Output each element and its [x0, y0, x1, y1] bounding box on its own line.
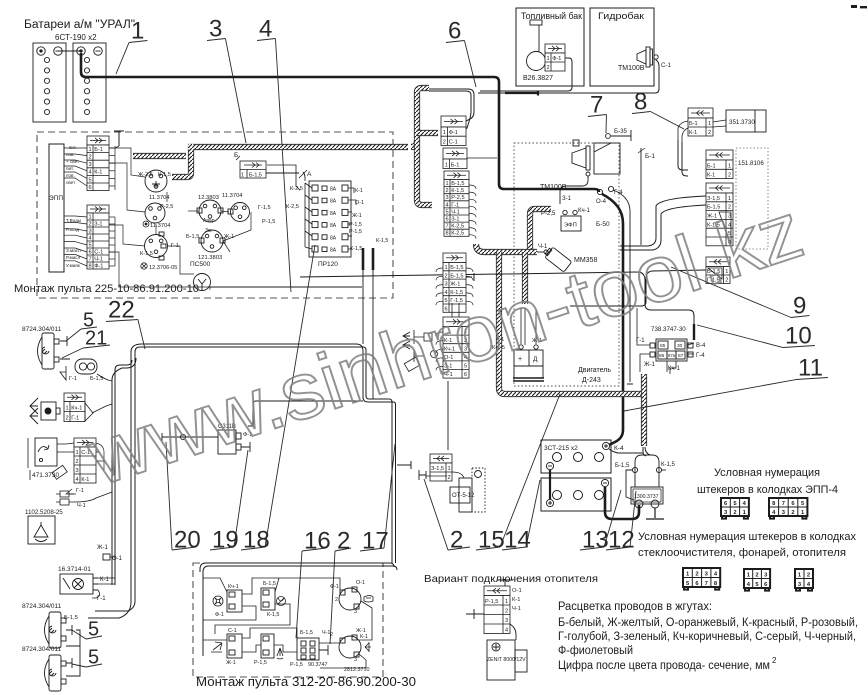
svg-text:К-1: К-1 [512, 597, 521, 603]
fog lamp 8724.304/011 #2 [45, 612, 67, 648]
svg-text:2: 2 [546, 65, 549, 71]
turn indicator arrows left-mid [403, 332, 410, 349]
svg-text:Б-1: Б-1 [689, 121, 698, 127]
svg-text:Р-1,5: Р-1,5 [485, 599, 498, 605]
callout 17 [360, 444, 395, 555]
label switch S3 [186, 228, 234, 261]
connector T4 6pin [443, 253, 466, 312]
relay K3 11.3704 [228, 203, 250, 222]
label horn wires [69, 376, 103, 382]
label console 312 title [196, 675, 416, 689]
svg-text:3СТ-215 х2: 3СТ-215 х2 [544, 445, 578, 452]
callout 14 [502, 480, 540, 554]
svg-text:Г-4: Г-4 [696, 353, 705, 359]
fuse C311B [218, 430, 241, 454]
label switch washer [254, 660, 267, 666]
svg-text:Р-2,5: Р-2,5 [451, 195, 464, 201]
oil pressure sensor MM358 [543, 246, 571, 272]
svg-text:2: 2 [88, 221, 91, 227]
svg-text:штекеров в колодках ЭПП-4: штекеров в колодках ЭПП-4 [697, 484, 838, 496]
callout 20 [166, 442, 201, 554]
wire sleeve V-4 [693, 324, 695, 340]
rotary switch 2812.3710 [339, 635, 361, 658]
wire washer to pair [74, 492, 112, 502]
pair bus 312 [200, 563, 397, 656]
svg-text:2: 2 [443, 139, 446, 145]
svg-text:З-1: З-1 [94, 221, 102, 227]
svg-text:8724.304/011: 8724.304/011 [22, 603, 62, 610]
wire to relay 738 [640, 272, 694, 338]
svg-text:Д-243: Д-243 [582, 377, 601, 384]
callout 5 [72, 647, 102, 669]
label console 225 title [14, 283, 199, 295]
wire EPP to table B bundle [64, 216, 87, 266]
svg-text:Б-белый, Ж-желтый, О-оранжевый: Б-белый, Ж-желтый, О-оранжевый, К-красны… [558, 617, 858, 629]
svg-text:ПС500: ПС500 [190, 261, 211, 268]
wire hydro sensor to connector T1 [478, 59, 659, 93]
wiper motor 471.3730 [35, 438, 57, 466]
wire T9 left [620, 196, 706, 250]
svg-text:2: 2 [445, 188, 448, 194]
wire cab lamp leads [92, 578, 115, 598]
wire heater link [497, 580, 516, 640]
callout 5 [66, 310, 97, 341]
svg-text:Условная нумерация штекеров в: Условная нумерация штекеров в колодках [638, 531, 856, 543]
svg-text:8: 8 [445, 231, 448, 237]
harness console top [133, 144, 408, 177]
wire branch heater [397, 461, 411, 469]
fuel filter EFP [561, 210, 581, 231]
svg-text:8724.304/011: 8724.304/011 [22, 326, 62, 333]
wire 312 internal [203, 578, 372, 668]
wire T5 side loops [436, 332, 443, 370]
switch S2 12.3803 [197, 200, 223, 222]
svg-text:Г-голубой, З-зеленый, Кч-корич: Г-голубой, З-зеленый, Кч-коричневый, С-с… [558, 631, 856, 643]
label batteries title [24, 19, 135, 42]
svg-text:Б-1,5: Б-1,5 [615, 463, 630, 469]
battery GB4 3ST-215 [541, 478, 611, 511]
cable GB4 to starter [605, 487, 639, 519]
switch fan (Kch-1) [227, 590, 242, 612]
svg-text:1102.5208-25: 1102.5208-25 [25, 509, 63, 516]
svg-text:1: 1 [445, 181, 448, 187]
svg-text:Б-1: Б-1 [451, 162, 460, 168]
engine box D-243 (dotted) [514, 143, 619, 386]
svg-text:4: 4 [445, 202, 448, 208]
battery GB3 3ST-215 [541, 440, 611, 473]
pilot lamp symbol [143, 221, 149, 227]
icon plug 8pin [683, 568, 720, 590]
svg-text:7: 7 [705, 581, 708, 587]
svg-text:Б-1,5: Б-1,5 [450, 273, 463, 279]
label rotary 2 [330, 628, 369, 673]
label O-4 / G-4 [596, 190, 623, 228]
svg-text:ОТ-5-12: ОТ-5-12 [452, 493, 475, 499]
harness engine V2 + bottom [499, 252, 647, 394]
svg-text:Условная нумерация: Условная нумерация [714, 467, 820, 479]
svg-text:К-1: К-1 [707, 173, 715, 179]
cab lamp 16.3714-01 [60, 574, 98, 594]
probe fog lamp [60, 336, 70, 359]
label switch fan [215, 584, 239, 618]
cable GB3-GB4 link [549, 470, 551, 499]
callout 3 [207, 16, 246, 143]
probe 90.3747 [319, 645, 328, 655]
label 3ST-215 [544, 445, 578, 452]
svg-text:7: 7 [590, 92, 603, 119]
svg-text:7: 7 [445, 224, 448, 230]
svg-text:пов.: пов. [66, 152, 75, 157]
switch washer [261, 634, 274, 658]
svg-text:Вариант подключения отопителя: Вариант подключения отопителя [424, 573, 598, 585]
callout 16 [296, 528, 331, 638]
svg-text:З-1,5: З-1,5 [707, 196, 720, 202]
svg-text:Ж-1: Ж-1 [226, 660, 236, 666]
svg-text:2: 2 [791, 510, 794, 516]
svg-text:11.3704: 11.3704 [222, 193, 243, 199]
label relay 738 pins [659, 343, 684, 359]
icon wiper [211, 642, 222, 652]
svg-text:Г-1: Г-1 [69, 376, 77, 382]
harness right of engine [641, 374, 647, 446]
wire T8 leads left [570, 270, 706, 306]
svg-text:Ж-1: Ж-1 [450, 282, 460, 288]
label relay K3 [222, 193, 275, 225]
flasher unit 351.3730 [726, 110, 766, 132]
svg-text:Б-1,5: Б-1,5 [450, 265, 463, 271]
wire Ch-1 to MM358 [537, 251, 544, 253]
harness engine vertical V1 [530, 209, 551, 250]
fuel tank box [516, 8, 584, 86]
wire T3 right stubs [469, 185, 476, 239]
svg-text:1: 1 [728, 196, 731, 202]
svg-text:К-1: К-1 [81, 477, 89, 483]
svg-text:Ф-фиолетовый: Ф-фиолетовый [558, 645, 633, 657]
callout 12 [606, 491, 636, 554]
svg-text:5: 5 [88, 242, 91, 248]
connector 90.3747 [297, 638, 319, 660]
svg-text:8: 8 [88, 263, 91, 269]
terminal GB4 minus [601, 479, 608, 486]
svg-text:351.3730: 351.3730 [729, 119, 755, 126]
wire console bus links [109, 148, 251, 290]
svg-text:Б-1,5: Б-1,5 [249, 173, 262, 179]
label Zh-1 left pair [97, 545, 109, 551]
svg-text:свет: свет [66, 180, 76, 185]
terminal GB3 plus [602, 442, 609, 449]
svg-text:1: 1 [546, 56, 549, 62]
console box 225 (dashed) [37, 132, 393, 298]
svg-text:1: 1 [444, 265, 447, 271]
label 8724.304/011 mid [22, 603, 62, 610]
svg-text:- пит.: - пит. [66, 145, 77, 150]
svg-text:738.3747-30: 738.3747-30 [651, 326, 686, 333]
svg-text:Ж-1: Ж-1 [97, 545, 109, 551]
svg-text:1: 1 [728, 163, 731, 169]
connector washer 2pin [56, 491, 74, 505]
icon EPP plug A [721, 498, 749, 519]
svg-text:Г-1: Г-1 [451, 202, 459, 208]
svg-text:Ф-1: Ф-1 [552, 56, 561, 62]
label PS500 [190, 261, 211, 268]
svg-text:9: 9 [793, 293, 806, 320]
svg-text:2: 2 [807, 573, 810, 579]
svg-text:стеклоочистителя, фонарей, ото: стеклоочистителя, фонарей, отопителя [638, 547, 846, 559]
svg-text:6: 6 [88, 185, 91, 191]
label B-1 [638, 148, 655, 160]
wire generator leads [521, 308, 536, 345]
label MM358 [538, 244, 597, 264]
svg-text:В26.3827: В26.3827 [523, 75, 553, 82]
svg-text:Цифра после цвета провода- сеч: Цифра после цвета провода- сечение, мм [558, 660, 770, 672]
fuse block PR120 [309, 181, 351, 257]
bracket symbols left-mid [414, 330, 438, 362]
svg-text:Б-1: Б-1 [707, 163, 716, 169]
svg-text:К-1,5: К-1,5 [350, 246, 362, 252]
wire TM100V down [560, 176, 588, 204]
svg-text:4: 4 [88, 170, 91, 176]
svg-text:К-1: К-1 [360, 634, 368, 640]
connector side repeater [64, 393, 85, 422]
label fuel tank [521, 11, 582, 21]
wire EPP to table A bundle [64, 148, 87, 186]
svg-text:Р-1,5: Р-1,5 [262, 219, 275, 225]
label relay K1 [138, 172, 171, 201]
horn [75, 359, 97, 374]
svg-text:11: 11 [798, 355, 823, 382]
probe symbol near Z table [419, 470, 426, 480]
wire K-1.5 starter [661, 469, 666, 471]
switch S3 121.3803 (start) [199, 230, 225, 252]
label heater variant [424, 573, 598, 585]
svg-text:6: 6 [445, 217, 448, 223]
svg-text:2: 2 [65, 415, 68, 421]
temperature sensor TM100V (hydro) [637, 47, 658, 67]
label 8724.304/011 bottom [22, 646, 62, 653]
heater ZENIT 8000/12V [487, 640, 527, 680]
svg-text:1: 1 [241, 173, 244, 179]
speck top right [851, 5, 867, 8]
svg-text:Монтаж пульта 312-20-86.90.200: Монтаж пульта 312-20-86.90.200-30 [196, 675, 416, 689]
label C311B [218, 424, 252, 438]
svg-text:1: 1 [445, 162, 448, 168]
terminal B-35 [606, 130, 631, 141]
svg-text:2: 2 [733, 510, 736, 516]
marker light connector O-1 [103, 554, 110, 560]
svg-text:1300.3737: 1300.3737 [634, 494, 659, 500]
switch S1 12.3803 (ignition) [145, 232, 168, 260]
label O-1 [112, 556, 123, 562]
svg-text:2: 2 [88, 155, 91, 161]
label K-2.5 lower [286, 204, 299, 210]
svg-text:1: 1 [88, 214, 91, 220]
label EFP [541, 208, 591, 229]
label B26.3827 [523, 75, 553, 82]
svg-text:К-1: К-1 [689, 130, 697, 136]
svg-text:6СТ-190 х2: 6СТ-190 х2 [55, 33, 97, 42]
label switch wiper [226, 628, 237, 666]
svg-text:С-1: С-1 [449, 139, 458, 145]
wire battery link [58, 50, 81, 52]
wire pair fuel to T1 [429, 89, 474, 129]
wire node B to A [266, 172, 305, 178]
callout 10 [697, 323, 815, 350]
svg-text:Б-1,5: Б-1,5 [300, 630, 313, 636]
svg-text:К-1,5: К-1,5 [140, 251, 153, 257]
svg-text:З-1: З-1 [451, 217, 459, 223]
label heater rows [512, 588, 522, 612]
svg-text:Р-2,5: Р-2,5 [160, 204, 173, 210]
rotary switch light (O-1) [339, 587, 361, 610]
svg-text:К-2,5: К-2,5 [451, 224, 464, 230]
svg-text:11.3704: 11.3704 [149, 195, 170, 201]
svg-text:85: 85 [660, 343, 666, 349]
relay 738.3747-30 [650, 339, 693, 361]
battery GB1 [33, 43, 66, 122]
wire Z table row2 [426, 472, 464, 478]
svg-text:2: 2 [444, 273, 447, 279]
svg-text:4: 4 [75, 477, 78, 483]
svg-text:6: 6 [448, 18, 461, 45]
console box 312 (dashed) [193, 563, 383, 677]
temperature sensor TM100V engine [572, 146, 590, 176]
connector T3 8pin [444, 171, 469, 236]
svg-text:Ч-1: Ч-1 [451, 209, 460, 215]
svg-text:8А: 8А [330, 248, 337, 254]
svg-text:Топливный бак: Топливный бак [521, 11, 582, 21]
probe C311B [241, 426, 253, 452]
flag probe horn [60, 366, 66, 380]
svg-text:3: 3 [444, 282, 447, 288]
label OT-5-12 [452, 493, 475, 499]
svg-text:О-1: О-1 [355, 200, 364, 206]
label generator [492, 337, 542, 363]
svg-text:К-2,5: К-2,5 [451, 231, 464, 237]
wire T2 to engine [467, 157, 497, 159]
generator [513, 345, 544, 381]
switch lights (B-1.5) [261, 588, 275, 610]
label rotary 1 [330, 580, 365, 615]
svg-text:Ж-1: Ж-1 [224, 234, 234, 240]
svg-text:К-4: К-4 [614, 445, 624, 452]
callout 11 [624, 355, 828, 411]
heater plug OT-5-12 [450, 468, 485, 512]
marker wedge T9 [719, 212, 731, 245]
callout 1 [116, 18, 147, 74]
legend wire colours [558, 601, 858, 672]
svg-text:1: 1 [65, 405, 68, 411]
svg-text:С-1: С-1 [661, 62, 672, 69]
svg-text:4: 4 [88, 235, 91, 241]
svg-text:8А: 8А [330, 187, 337, 193]
svg-text:Г-1,5: Г-1,5 [258, 205, 271, 211]
label starter wires [614, 445, 675, 469]
wire side repeater to pair [92, 404, 112, 413]
connector T8 2pin [706, 257, 730, 284]
icon marker light [364, 596, 373, 603]
wire pair left branch [112, 358, 136, 585]
svg-text:Б-1: Б-1 [645, 153, 655, 160]
callout 5 [72, 619, 102, 641]
EPP unit [49, 144, 64, 272]
svg-text:3: 3 [209, 16, 222, 43]
label 16.3714-01 [58, 566, 109, 602]
svg-text:Р-1,5: Р-1,5 [254, 660, 267, 666]
svg-text:Ф-1: Ф-1 [94, 263, 103, 269]
svg-text:86: 86 [659, 353, 665, 359]
label 12.3706-05 [149, 265, 177, 271]
connector wiper [74, 438, 96, 483]
svg-text:3: 3 [75, 468, 78, 474]
watermark [77, 185, 814, 503]
svg-text:8724.304/011: 8724.304/011 [22, 646, 62, 653]
label B-35 [614, 128, 628, 135]
label PR120 [318, 261, 338, 268]
connector T5 6pin [443, 317, 469, 378]
svg-text:8А: 8А [330, 211, 337, 217]
lamp unit 151.8106 (dotted) [736, 148, 768, 249]
icon lamp [277, 597, 286, 606]
connector fuel sender [545, 44, 565, 71]
wire lamps join [66, 625, 80, 676]
svg-text:1: 1 [505, 599, 508, 605]
label hydro tank [598, 11, 644, 21]
svg-text:151.8106: 151.8106 [738, 160, 764, 167]
svg-text:3: 3 [88, 228, 91, 234]
ground T terminal console [114, 131, 124, 146]
EPP pin function labels [66, 145, 81, 268]
icon washer [277, 648, 283, 659]
svg-text:5: 5 [88, 177, 91, 183]
svg-text:3: 3 [354, 609, 357, 615]
callout 2 [424, 479, 470, 554]
label switch S1 [140, 243, 179, 257]
svg-text:Б-50: Б-50 [596, 221, 610, 228]
wire C311B junction to pair [253, 401, 363, 404]
engine corner detail [594, 143, 620, 174]
svg-text:Гидробак: Гидробак [598, 11, 644, 21]
svg-text:Б-1,5: Б-1,5 [451, 181, 464, 187]
fuel level sender B26.3827 [527, 20, 546, 71]
svg-text:2: 2 [75, 459, 78, 465]
wire sleeves to pair [363, 270, 373, 399]
relay K1 11.3704 [145, 170, 167, 192]
wire T4-T5 links [452, 303, 459, 317]
callout 22 [106, 297, 145, 349]
callout 4 [257, 16, 291, 292]
fog lamp 8724.304/011 #1 [38, 333, 60, 369]
svg-text:С-1: С-1 [228, 628, 237, 634]
connector T9 6pin [706, 183, 733, 246]
svg-text:2: 2 [330, 632, 333, 638]
wire G-4 riser [613, 190, 633, 384]
svg-text:3: 3 [505, 618, 508, 624]
svg-text:ТМ100В: ТМ100В [618, 65, 645, 72]
icon EPP plug B [769, 498, 807, 519]
harness riser to T3 [417, 140, 432, 205]
flag probe wiper [52, 465, 67, 479]
wire starter cable B-50 [602, 194, 623, 445]
label relay K2 [150, 204, 173, 229]
probe heater [466, 609, 484, 619]
svg-text:К-1,5: К-1,5 [267, 612, 279, 618]
wire sleeve console out 2 [372, 248, 375, 270]
harness console right riser [411, 88, 429, 147]
connector T1 (F-1/S-1) [441, 116, 466, 145]
label G-1 wiper [76, 488, 84, 494]
svg-text:пов.: пов. [66, 173, 75, 178]
label ZENIT [487, 657, 526, 663]
